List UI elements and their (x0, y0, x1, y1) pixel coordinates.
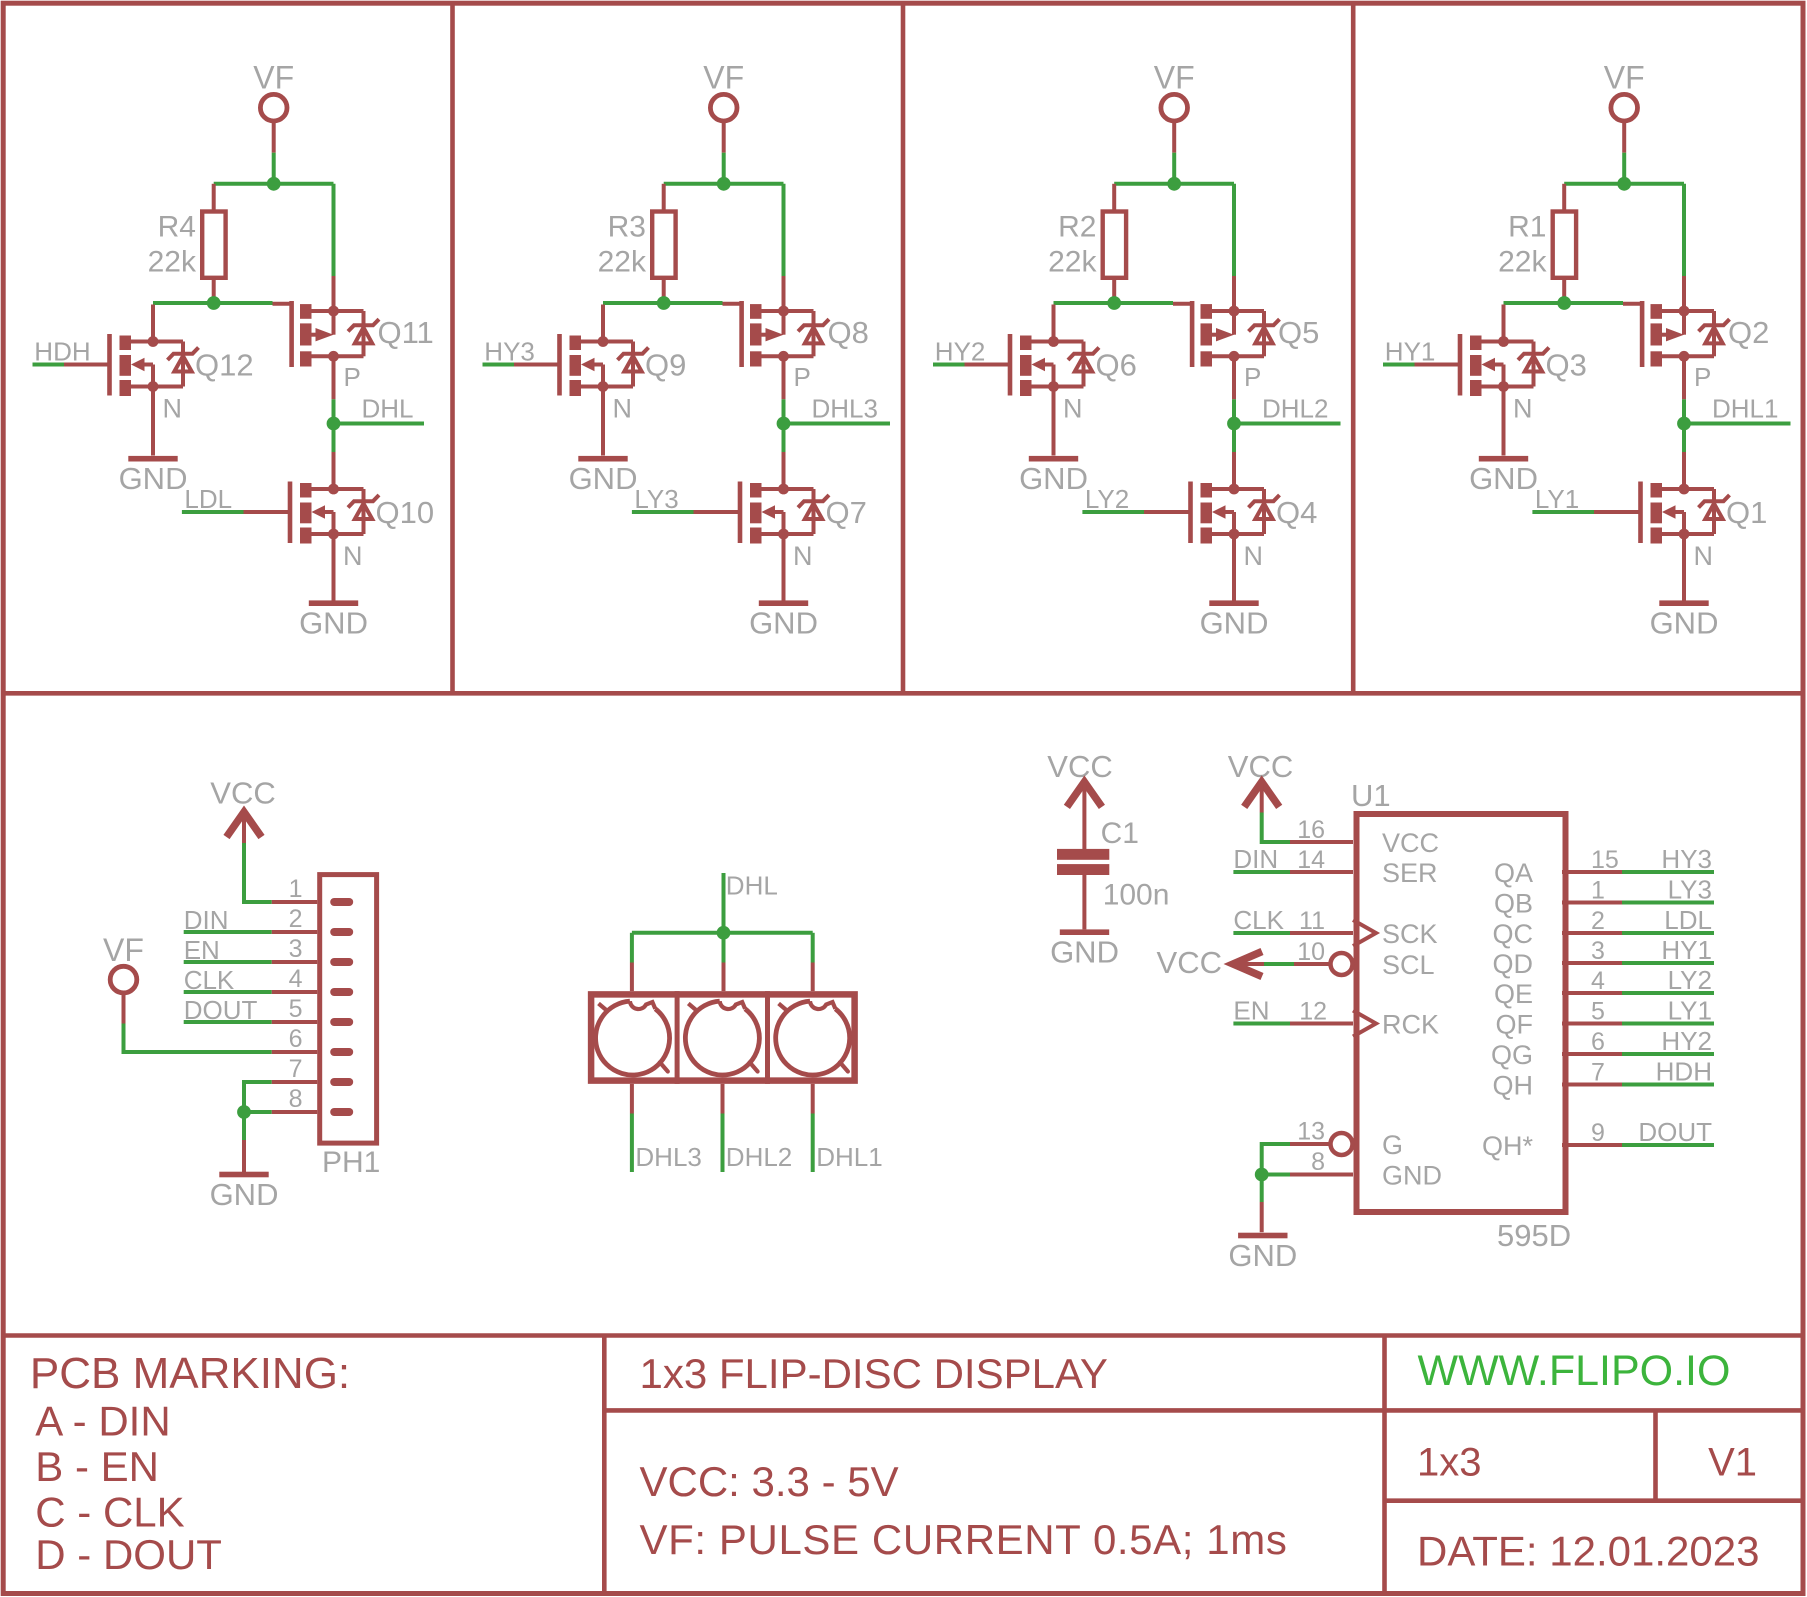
svg-text:6: 6 (289, 1025, 303, 1053)
svg-text:22k: 22k (1498, 246, 1547, 279)
junction (1107, 296, 1121, 310)
svg-text:Q4: Q4 (1276, 495, 1317, 530)
svg-text:LY2: LY2 (1668, 965, 1712, 995)
svg-text:HY1: HY1 (1385, 336, 1436, 366)
svg-text:EN: EN (1233, 996, 1269, 1026)
svg-text:WWW.FLIPO.IO: WWW.FLIPO.IO (1418, 1347, 1731, 1395)
pin 12 RCK / EN (1290, 1022, 1353, 1026)
wire VCC to pin1 (244, 843, 272, 902)
wire HY1 (1383, 363, 1415, 367)
svg-text:Q7: Q7 (826, 495, 867, 530)
wire (1260, 1175, 1264, 1203)
transistor Q5 (P-MOSFET) (1173, 276, 1280, 399)
wire DIN (184, 930, 272, 934)
pin 10 SCL / VCC (1294, 962, 1331, 966)
wire (811, 933, 815, 963)
svg-text:5: 5 (1591, 998, 1605, 1026)
svg-text:Q6: Q6 (1096, 348, 1137, 383)
svg-text:VF: VF (253, 60, 294, 96)
svg-text:VCC: VCC (1047, 749, 1112, 784)
wire VF net (1172, 153, 1176, 184)
wire (1564, 182, 1684, 186)
svg-text:VCC: VCC (1157, 945, 1222, 980)
svg-text:10: 10 (1297, 938, 1325, 966)
wire DOUT (184, 1020, 272, 1024)
wire DHL1 (1684, 422, 1791, 426)
svg-text:RCK: RCK (1382, 1010, 1439, 1040)
wire (664, 182, 784, 186)
svg-text:HY2: HY2 (935, 336, 986, 366)
svg-text:LY3: LY3 (634, 484, 678, 514)
transistor Q11 (P-MOSFET) (273, 276, 380, 399)
svg-text:D - DOUT: D - DOUT (35, 1531, 222, 1578)
svg-text:N: N (163, 394, 183, 424)
ground (299, 600, 368, 640)
svg-text:N: N (613, 394, 633, 424)
wire HDH (33, 363, 65, 367)
svg-text:Q9: Q9 (645, 348, 686, 383)
wire GND pin7 (244, 1082, 272, 1112)
svg-text:QH*: QH* (1482, 1131, 1534, 1161)
pin 7 pad (330, 1078, 353, 1086)
svg-text:1: 1 (1591, 877, 1605, 905)
svg-text:DHL3: DHL3 (635, 1142, 701, 1172)
transistor Q4 (N-MOSFET) (1144, 452, 1280, 603)
svg-text:22k: 22k (598, 246, 647, 279)
svg-text:2: 2 (1591, 907, 1605, 935)
svg-text:QG: QG (1491, 1040, 1533, 1070)
wire LY1 (1532, 510, 1594, 514)
junction (207, 296, 221, 310)
svg-text:SCL: SCL (1382, 950, 1435, 980)
wire DHL1 net (1682, 399, 1686, 423)
svg-text:GND: GND (1382, 1161, 1442, 1191)
pin 8 GND (1290, 1173, 1353, 1177)
wire VF to pin6 (124, 1024, 272, 1053)
transistor Q12 (N-MOSFET) (63, 305, 199, 456)
svg-text:14: 14 (1297, 846, 1325, 874)
svg-text:Q2: Q2 (1728, 315, 1769, 350)
pin 5 pad (330, 1018, 353, 1026)
svg-text:LY2: LY2 (1085, 484, 1129, 514)
svg-text:C1: C1 (1101, 817, 1139, 850)
svg-text:LY3: LY3 (1668, 875, 1712, 905)
junction (717, 177, 731, 191)
ground (749, 600, 818, 640)
svg-text:P: P (344, 362, 361, 392)
svg-text:QE: QE (1494, 979, 1533, 1009)
wire (782, 424, 786, 453)
wire (1232, 184, 1236, 276)
wire CLK (184, 990, 272, 994)
svg-text:N: N (1063, 394, 1083, 424)
title divider horizontal (1385, 1498, 1804, 1503)
pin 15 QA / HY3 (1562, 870, 1622, 874)
wire DHL1 (811, 1084, 815, 1114)
svg-text:Q5: Q5 (1278, 315, 1319, 350)
pin 6 QG / HY2 (1562, 1052, 1622, 1056)
svg-text:5: 5 (289, 995, 303, 1023)
disc 2 (685, 1001, 759, 1075)
wire (1232, 424, 1236, 453)
svg-text:R1: R1 (1508, 211, 1546, 244)
svg-text:QD: QD (1493, 949, 1534, 979)
wire (1504, 301, 1624, 305)
wire (632, 931, 813, 935)
svg-text:9: 9 (1591, 1119, 1605, 1147)
svg-text:12: 12 (1299, 998, 1327, 1026)
wire pin13 to GND (1262, 1144, 1290, 1174)
svg-text:HY1: HY1 (1661, 935, 1712, 965)
junction (237, 1105, 251, 1119)
svg-text:VCC: 3.3 - 5V: VCC: 3.3 - 5V (640, 1458, 899, 1505)
block separator (901, 5, 906, 693)
pin 6 pad (330, 1048, 353, 1056)
pin 2 QC / LDL (1562, 931, 1622, 935)
ground (119, 456, 188, 496)
svg-text:DHL3: DHL3 (812, 393, 878, 423)
junction (1617, 177, 1631, 191)
wire DHL2 (1234, 422, 1341, 426)
wire LY3 (632, 510, 694, 514)
svg-text:QC: QC (1493, 919, 1534, 949)
svg-text:4: 4 (289, 965, 303, 993)
wire EN (184, 960, 272, 964)
ground (569, 456, 638, 496)
ground (1228, 1233, 1297, 1273)
pin 16 VCC (1290, 840, 1353, 844)
svg-text:N: N (1694, 541, 1714, 571)
pin 11 SCK / CLK (1290, 931, 1353, 935)
wire (214, 182, 334, 186)
junction (657, 296, 671, 310)
svg-text:7: 7 (1591, 1059, 1605, 1087)
svg-text:3: 3 (289, 935, 303, 963)
transistor Q10 (N-MOSFET) (244, 452, 380, 603)
svg-text:QA: QA (1494, 858, 1533, 888)
wire (782, 184, 786, 276)
svg-text:N: N (793, 541, 813, 571)
svg-text:16: 16 (1297, 816, 1325, 844)
pin 3 pad (330, 958, 353, 966)
disc 1 (596, 1001, 670, 1075)
svg-text:1: 1 (289, 875, 303, 903)
svg-text:8: 8 (289, 1085, 303, 1113)
svg-text:LDL: LDL (184, 484, 232, 514)
svg-text:3: 3 (1591, 937, 1605, 965)
resistor R4 22k (212, 184, 216, 212)
svg-text:A - DIN: A - DIN (35, 1398, 170, 1445)
disc 3 (776, 1001, 850, 1075)
svg-text:DIN: DIN (1233, 844, 1278, 874)
pin 9 QH* / DOUT (1562, 1143, 1622, 1147)
svg-text:595D: 595D (1497, 1218, 1571, 1253)
transistor Q2 (P-MOSFET) (1623, 276, 1730, 399)
wire DHL2 net (1232, 399, 1236, 423)
svg-text:P: P (1244, 362, 1261, 392)
ground (1650, 600, 1719, 640)
svg-text:PH1: PH1 (322, 1146, 380, 1179)
wire DHL2 (721, 1084, 725, 1114)
svg-text:VF: PULSE CURRENT 0.5A; 1ms: VF: PULSE CURRENT 0.5A; 1ms (640, 1516, 1288, 1563)
junction (327, 417, 341, 431)
svg-text:B - EN: B - EN (35, 1443, 159, 1490)
transistor Q8 (P-MOSFET) (723, 276, 830, 399)
svg-text:QB: QB (1494, 889, 1533, 919)
wire DHL (722, 873, 726, 933)
junction (777, 417, 791, 431)
svg-text:PCB MARKING:: PCB MARKING: (30, 1349, 350, 1398)
svg-text:CLK: CLK (1233, 905, 1284, 935)
svg-text:U1: U1 (1351, 778, 1391, 813)
wire GND pin8 (244, 1110, 272, 1114)
svg-text:N: N (343, 541, 363, 571)
svg-text:LY1: LY1 (1668, 996, 1712, 1026)
wire VF net (722, 153, 726, 184)
svg-text:VCC: VCC (210, 776, 275, 811)
resistor R1 22k (1562, 184, 1566, 212)
svg-text:22k: 22k (148, 246, 197, 279)
pin 4 pad (330, 988, 353, 996)
svg-text:Q11: Q11 (378, 315, 434, 350)
svg-text:Q10: Q10 (376, 495, 435, 530)
svg-text:DHL2: DHL2 (726, 1142, 792, 1172)
svg-text:VF: VF (1154, 60, 1195, 96)
svg-text:VF: VF (703, 60, 744, 96)
svg-text:R2: R2 (1058, 211, 1096, 244)
wire (603, 301, 723, 305)
wire LY2 (1082, 510, 1144, 514)
wire (1682, 184, 1686, 276)
svg-text:N: N (1513, 394, 1533, 424)
wire DHL (334, 422, 425, 426)
svg-text:QF: QF (1496, 1010, 1534, 1040)
svg-text:HY2: HY2 (1661, 1026, 1712, 1056)
pin 1 pad (330, 898, 353, 906)
wire (242, 1112, 246, 1140)
wire DHL3 (784, 422, 891, 426)
IC U1 595D shift register body (1357, 814, 1566, 1212)
wire DHL3 net (782, 399, 786, 423)
svg-text:C - CLK: C - CLK (35, 1488, 184, 1535)
svg-text:DOUT: DOUT (1638, 1117, 1712, 1147)
svg-text:G: G (1382, 1130, 1403, 1160)
ground (1019, 456, 1088, 496)
svg-text:HY3: HY3 (484, 336, 535, 366)
wire (332, 424, 336, 453)
wire (1682, 424, 1686, 453)
pin 7 QH / HDH (1562, 1083, 1622, 1087)
wire VF net (1622, 153, 1626, 184)
ground (1469, 456, 1538, 496)
wire HY3 (483, 363, 515, 367)
connector PH1 (320, 875, 377, 1144)
wire (1114, 182, 1234, 186)
transistor Q3 (N-MOSFET) (1414, 305, 1550, 456)
svg-text:V1: V1 (1708, 1441, 1757, 1485)
block separator (1351, 5, 1356, 693)
svg-text:15: 15 (1591, 846, 1619, 874)
ground (1200, 600, 1269, 640)
svg-text:HDH: HDH (34, 336, 90, 366)
section divider (3, 691, 1803, 696)
pin 13 G (1290, 1142, 1331, 1146)
junction (1227, 417, 1241, 431)
svg-text:SCK: SCK (1382, 919, 1438, 949)
transistor Q1 (N-MOSFET) (1594, 452, 1730, 603)
svg-text:R4: R4 (158, 211, 196, 244)
svg-text:SER: SER (1382, 858, 1438, 888)
svg-text:P: P (1694, 362, 1711, 392)
svg-text:LDL: LDL (1664, 905, 1712, 935)
ground (1050, 929, 1119, 969)
svg-text:DATE: 12.01.2023: DATE: 12.01.2023 (1417, 1528, 1759, 1575)
title divider horizontal (604, 1408, 1803, 1413)
title divider vertical (1382, 1336, 1387, 1594)
svg-text:13: 13 (1297, 1118, 1325, 1146)
resistor R2 22k (1112, 184, 1116, 212)
svg-text:DHL2: DHL2 (1262, 393, 1328, 423)
svg-text:QH: QH (1493, 1071, 1534, 1101)
title divider vertical (602, 1336, 607, 1594)
wire VF net (272, 153, 276, 184)
svg-text:HDH: HDH (1656, 1057, 1712, 1087)
svg-text:Q8: Q8 (828, 315, 869, 350)
svg-text:Q1: Q1 (1726, 495, 1767, 530)
svg-text:Q12: Q12 (195, 348, 254, 383)
junction (1167, 177, 1181, 191)
junction (1557, 296, 1571, 310)
junction (267, 177, 281, 191)
svg-text:P: P (794, 362, 811, 392)
wire (722, 933, 726, 963)
svg-text:1x3: 1x3 (1417, 1441, 1482, 1485)
svg-text:2: 2 (289, 905, 303, 933)
svg-text:4: 4 (1591, 967, 1605, 995)
svg-text:8: 8 (1311, 1148, 1325, 1176)
svg-text:HY3: HY3 (1661, 844, 1712, 874)
svg-text:Q3: Q3 (1546, 348, 1587, 383)
svg-text:DHL: DHL (362, 393, 414, 423)
svg-text:6: 6 (1591, 1028, 1605, 1056)
pin 8 pad (330, 1108, 353, 1116)
transistor Q6 (N-MOSFET) (964, 305, 1100, 456)
pin 1 QB / LY3 (1562, 901, 1622, 905)
pin 2 pad (330, 928, 353, 936)
transistor Q9 (N-MOSFET) (513, 305, 649, 456)
wire HY2 (933, 363, 965, 367)
junction (717, 926, 731, 940)
wire VCC to pin16 (1262, 813, 1290, 843)
wire DHL net (332, 399, 336, 423)
svg-text:DHL1: DHL1 (816, 1142, 882, 1172)
svg-text:1x3 FLIP-DISC DISPLAY: 1x3 FLIP-DISC DISPLAY (640, 1350, 1108, 1397)
pin 3 QD / HY1 (1562, 961, 1622, 965)
pin 5 QF / LY1 (1562, 1022, 1622, 1026)
svg-text:VCC: VCC (1382, 828, 1439, 858)
svg-text:7: 7 (289, 1055, 303, 1083)
svg-text:R3: R3 (608, 211, 646, 244)
svg-text:DHL1: DHL1 (1712, 393, 1778, 423)
svg-text:22k: 22k (1048, 246, 1097, 279)
ground (210, 1172, 279, 1212)
resistor R3 22k (662, 184, 666, 212)
title divider vertical (1653, 1410, 1658, 1500)
pin 4 QE / LY2 (1562, 991, 1622, 995)
svg-text:DHL: DHL (726, 871, 778, 901)
transistor Q7 (N-MOSFET) (694, 452, 830, 603)
wire (1054, 301, 1174, 305)
svg-text:100n: 100n (1103, 879, 1170, 912)
wire DHL3 (630, 1084, 634, 1114)
wire (153, 301, 273, 305)
wire (332, 184, 336, 276)
svg-text:11: 11 (1299, 907, 1325, 935)
title block top line (3, 1333, 1803, 1338)
pin 14 SER / DIN (1290, 870, 1353, 874)
junction (1677, 417, 1691, 431)
capacitor C1 100n (1082, 784, 1086, 849)
svg-text:VF: VF (103, 932, 144, 968)
wire LDL (182, 510, 244, 514)
flip-disc display DIS1 body (591, 994, 855, 1080)
svg-text:N: N (1244, 541, 1264, 571)
svg-text:VF: VF (1604, 60, 1645, 96)
wire (630, 933, 634, 963)
block separator (450, 5, 455, 693)
svg-text:LY1: LY1 (1535, 484, 1579, 514)
junction (1255, 1168, 1269, 1182)
